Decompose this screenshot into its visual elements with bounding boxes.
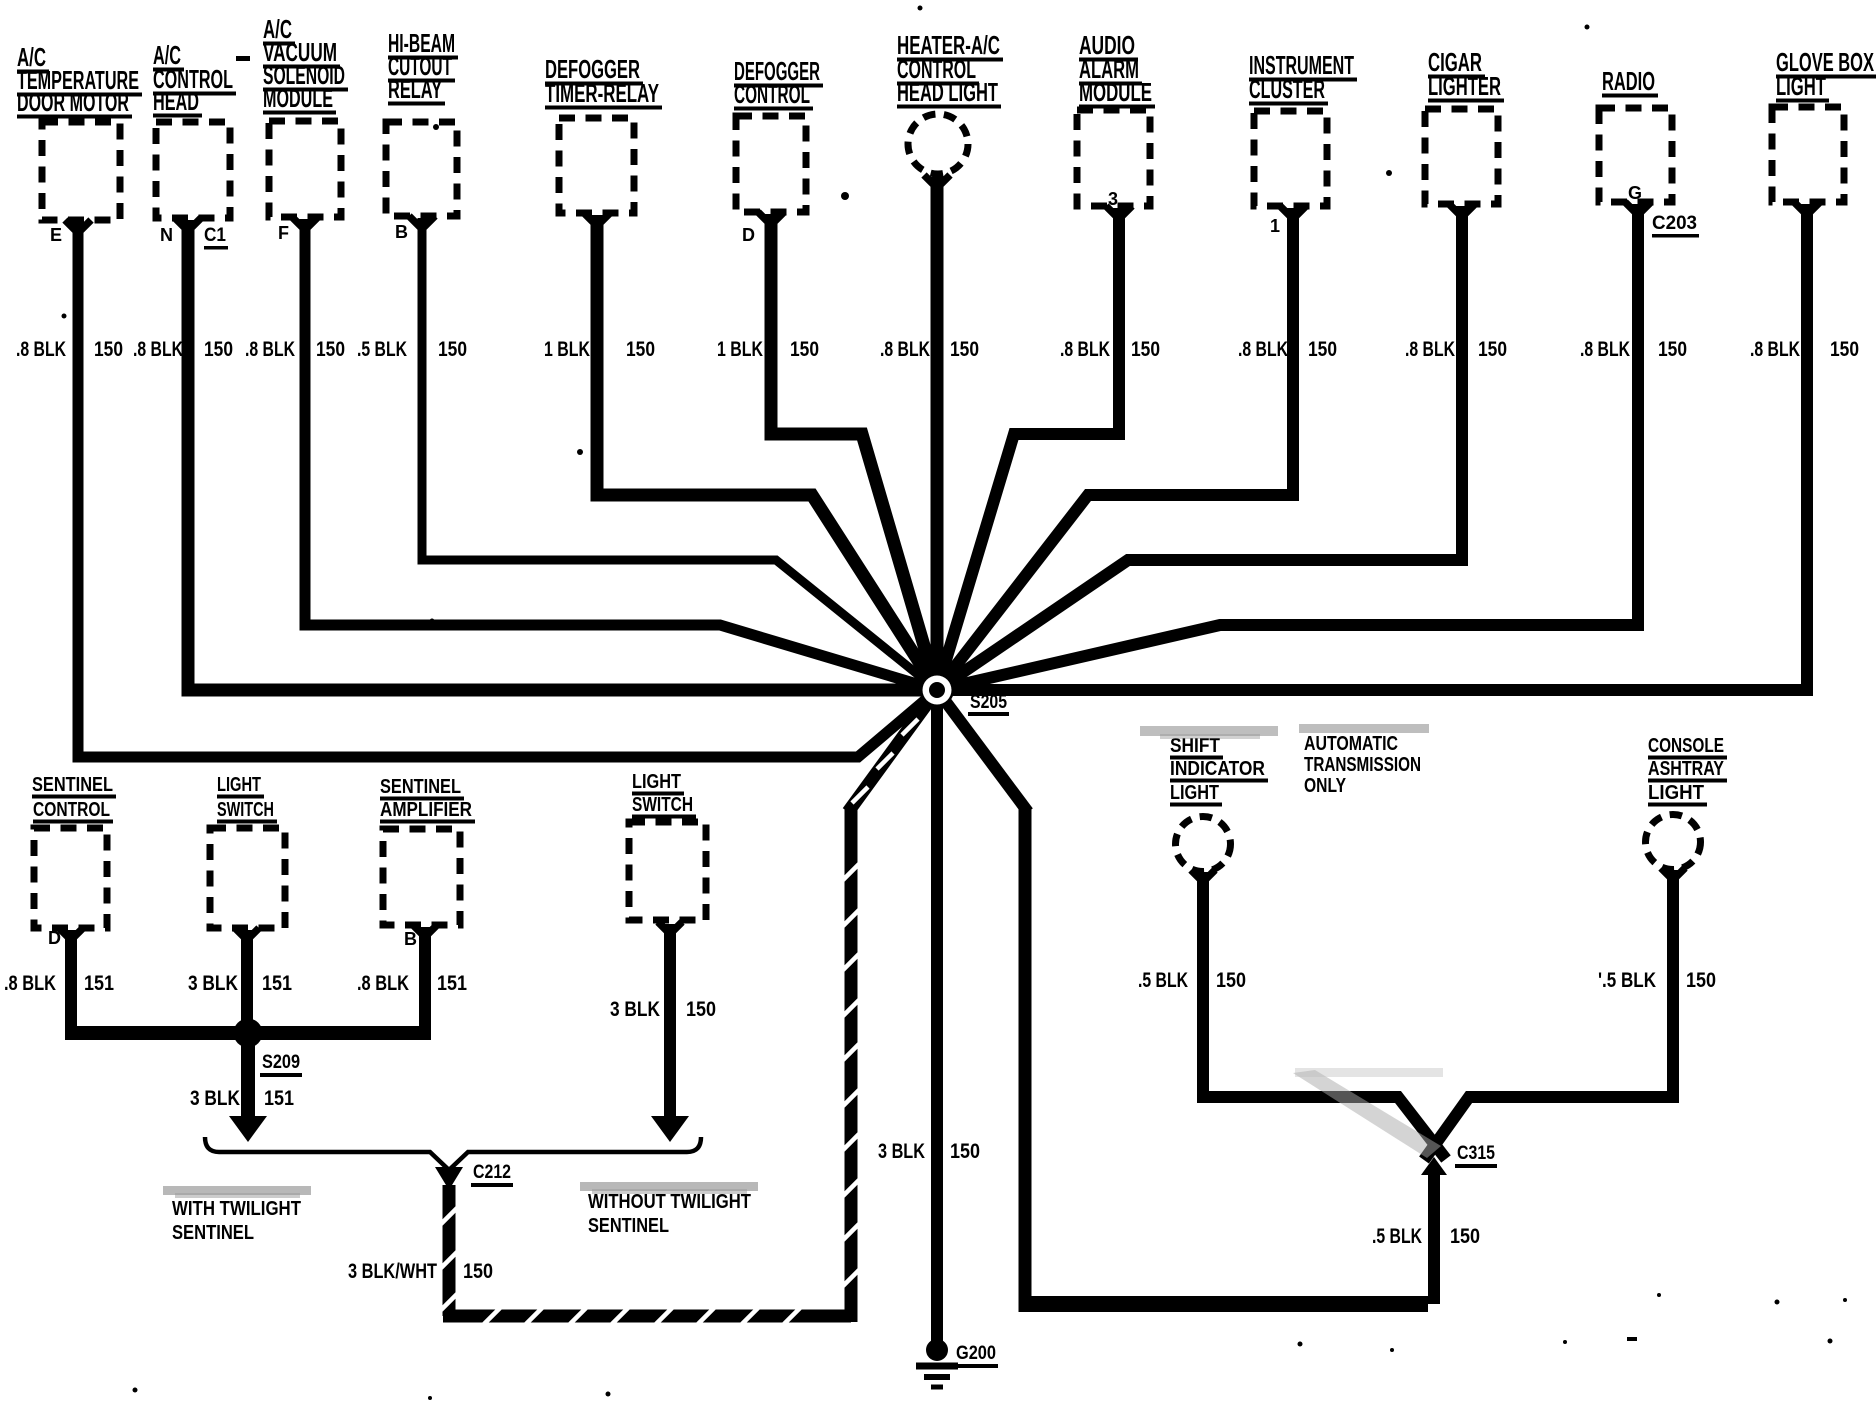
svg-text:HEAD: HEAD — [153, 86, 199, 116]
svg-text:150: 150 — [1478, 338, 1507, 361]
svg-text:LIGHT: LIGHT — [1776, 71, 1826, 101]
svg-text:1: 1 — [1270, 216, 1280, 236]
svg-text:RADIO: RADIO — [1602, 66, 1655, 96]
svg-text:SENTINEL: SENTINEL — [32, 774, 113, 796]
svg-text:LIGHT: LIGHT — [632, 771, 681, 793]
wire 3 BLK/WHT 150 from C212 to S205 (striped) — [348, 690, 937, 1324]
svg-text:SENTINEL: SENTINEL — [380, 776, 461, 798]
svg-text:SENTINEL: SENTINEL — [172, 1222, 254, 1244]
component A/C TEMPERATURE DOOR MOTOR — [17, 42, 142, 245]
svg-text:3 BLK: 3 BLK — [188, 972, 238, 995]
wire radio .8 BLK 150 — [937, 202, 1687, 690]
svg-text:'.5 BLK: '.5 BLK — [1598, 969, 1656, 992]
svg-text:.5 BLK: .5 BLK — [357, 338, 407, 361]
component AUDIO ALARM MODULE — [1077, 30, 1155, 209]
svg-text:.8 BLK: .8 BLK — [1060, 338, 1110, 361]
svg-text:MODULE: MODULE — [263, 83, 333, 113]
component SENTINEL CONTROL — [32, 774, 116, 948]
component HEATER-A/C CONTROL HEAD LIGHT — [897, 30, 1003, 174]
wire .5 BLK 150 from C315 to S205 — [937, 690, 1480, 1312]
svg-text:C315: C315 — [1457, 1143, 1495, 1164]
ground G200 — [916, 1339, 998, 1387]
svg-text:TRANSMISSION: TRANSMISSION — [1304, 754, 1421, 776]
svg-text:150: 150 — [438, 338, 467, 361]
svg-text:.8 BLK: .8 BLK — [4, 972, 56, 995]
svg-text:151: 151 — [264, 1087, 294, 1110]
component GLOVE BOX LIGHT — [1772, 47, 1876, 202]
svg-text:G: G — [1628, 183, 1642, 203]
svg-text:1 BLK: 1 BLK — [544, 338, 590, 361]
svg-text:150: 150 — [1686, 969, 1716, 992]
svg-text:151: 151 — [262, 972, 292, 995]
svg-text:.8 BLK: .8 BLK — [16, 338, 66, 361]
wire instrument cluster .8 BLK 150 — [937, 206, 1337, 690]
svg-text:TIMER-RELAY: TIMER-RELAY — [545, 78, 659, 108]
svg-text:D: D — [742, 225, 755, 245]
svg-text:ASHTRAY: ASHTRAY — [1648, 758, 1725, 780]
svg-text:.5 BLK: .5 BLK — [1138, 969, 1188, 992]
svg-text:150: 150 — [1830, 338, 1859, 361]
svg-text:HEAD LIGHT: HEAD LIGHT — [897, 77, 998, 107]
svg-text:.8 BLK: .8 BLK — [357, 972, 409, 995]
svg-text:150: 150 — [1658, 338, 1687, 361]
svg-text:150: 150 — [1131, 338, 1160, 361]
svg-text:LIGHTER: LIGHTER — [1428, 71, 1501, 101]
svg-text:CONTROL: CONTROL — [33, 799, 110, 821]
wire heater-a/c control head light .8 BLK 150 — [880, 175, 979, 690]
wire hi-beam cutout relay .5 BLK 150 — [357, 216, 937, 690]
svg-text:3 BLK: 3 BLK — [190, 1087, 240, 1110]
wire audio alarm module .8 BLK 150 — [937, 206, 1160, 690]
svg-text:MODULE: MODULE — [1079, 77, 1152, 107]
svg-text:RELAY: RELAY — [388, 74, 442, 104]
component HI-BEAM CUTOUT RELAY — [386, 28, 458, 242]
svg-text:LIGHT: LIGHT — [1648, 782, 1704, 804]
svg-text:ONLY: ONLY — [1304, 775, 1347, 797]
svg-text:INDICATOR: INDICATOR — [1170, 758, 1265, 780]
svg-text:G200: G200 — [956, 1343, 996, 1364]
svg-text:150: 150 — [463, 1260, 493, 1283]
svg-text:.5 BLK: .5 BLK — [1372, 1225, 1422, 1248]
svg-text:S205: S205 — [970, 692, 1007, 713]
junction bus at S209 — [65, 1026, 431, 1040]
note WITHOUT TWILIGHT SENTINEL — [580, 1182, 758, 1237]
svg-text:150: 150 — [1308, 338, 1337, 361]
svg-text:150: 150 — [686, 998, 716, 1021]
component LIGHT SWITCH (right) — [629, 771, 706, 920]
svg-text:.8 BLK: .8 BLK — [133, 338, 183, 361]
svg-text:SENTINEL: SENTINEL — [588, 1215, 669, 1237]
svg-text:3 BLK: 3 BLK — [610, 998, 660, 1021]
note WITH TWILIGHT SENTINEL — [163, 1186, 311, 1244]
svg-text:WITH TWILIGHT: WITH TWILIGHT — [172, 1198, 301, 1220]
component LIGHT SWITCH (left) — [210, 774, 285, 928]
wire 3 BLK 151 below S209 with arrow — [190, 1033, 294, 1142]
svg-text:WITHOUT TWILIGHT: WITHOUT TWILIGHT — [588, 1191, 751, 1213]
svg-text:C212: C212 — [473, 1162, 511, 1183]
svg-text:.8 BLK: .8 BLK — [1580, 338, 1630, 361]
svg-text:C1: C1 — [204, 225, 226, 246]
connector C212 — [435, 1162, 513, 1190]
svg-text:E: E — [50, 225, 62, 245]
svg-text:151: 151 — [437, 972, 467, 995]
svg-text:.8 BLK: .8 BLK — [880, 338, 930, 361]
smudge artifacts above shift/automatic labels — [1140, 726, 1278, 736]
wire light switch 3 BLK 151 — [188, 928, 292, 1122]
wire defogger control 1 BLK 150 — [717, 212, 937, 690]
svg-text:150: 150 — [950, 1140, 980, 1163]
component A/C CONTROL HEAD — [153, 40, 236, 250]
component CIGAR LIGHTER — [1425, 47, 1504, 204]
splice S205 — [920, 673, 1009, 716]
svg-text:3 BLK/WHT: 3 BLK/WHT — [348, 1260, 437, 1283]
svg-text:SWITCH: SWITCH — [632, 794, 693, 816]
component SENTINEL AMPLIFIER — [380, 776, 475, 949]
wire sentinel control .8 BLK 151 — [4, 928, 114, 1040]
lamp SHIFT INDICATOR LIGHT — [1170, 735, 1268, 872]
wire defogger timer-relay 1 BLK 150 — [544, 213, 937, 690]
svg-text:150: 150 — [1450, 1225, 1480, 1248]
svg-text:N: N — [160, 225, 173, 245]
splice S209 — [234, 1019, 303, 1078]
svg-text:F: F — [278, 223, 289, 243]
svg-text:150: 150 — [204, 338, 233, 361]
wire cigar lighter .8 BLK 150 — [937, 204, 1507, 690]
svg-text:B: B — [395, 222, 408, 242]
wire A/C vacuum solenoid .8 BLK 150 — [245, 217, 937, 690]
svg-text:LIGHT: LIGHT — [1170, 782, 1219, 804]
svg-text:S209: S209 — [262, 1052, 300, 1073]
component DEFOGGER TIMER-RELAY — [545, 54, 662, 213]
wire 3 BLK 150 from S205 to G200 — [878, 690, 980, 1348]
wire glove box light .8 BLK 150 — [937, 202, 1859, 690]
svg-text:151: 151 — [84, 972, 114, 995]
smudge streak near C315 — [1293, 1070, 1441, 1158]
component A/C VACUUM SOLENOID MODULE — [263, 14, 348, 243]
component RADIO — [1599, 66, 1699, 238]
svg-text:.8 BLK: .8 BLK — [245, 338, 295, 361]
wire shift indicator light .5 BLK 150 — [1138, 870, 1446, 1159]
svg-text:1 BLK: 1 BLK — [717, 338, 763, 361]
wire A/C temperature door motor .8 BLK 150 — [16, 220, 937, 757]
wire sentinel amplifier .8 BLK 151 — [357, 925, 467, 1040]
svg-text:C203: C203 — [1652, 213, 1697, 234]
note AUTOMATIC TRANSMISSION ONLY — [1304, 733, 1421, 797]
svg-text:.8 BLK: .8 BLK — [1750, 338, 1800, 361]
connector C315 — [1421, 1143, 1497, 1175]
svg-text:.8 BLK: .8 BLK — [1405, 338, 1455, 361]
svg-text:150: 150 — [1216, 969, 1246, 992]
svg-text:3 BLK: 3 BLK — [878, 1140, 925, 1163]
svg-text:SWITCH: SWITCH — [217, 799, 274, 821]
wire A/C control head .8 BLK 150 — [133, 218, 937, 690]
svg-text:.8 BLK: .8 BLK — [1238, 338, 1288, 361]
svg-text:CLUSTER: CLUSTER — [1249, 74, 1325, 104]
wire light switch 3 BLK 150 with arrow — [610, 922, 716, 1142]
brace joining arrows to C212 — [205, 1137, 701, 1170]
svg-text:150: 150 — [94, 338, 123, 361]
svg-text:LIGHT: LIGHT — [217, 774, 261, 796]
component DEFOGGER CONTROL — [734, 56, 823, 245]
lamp CONSOLE ASHTRAY LIGHT — [1646, 735, 1728, 870]
svg-text:DOOR MOTOR: DOOR MOTOR — [17, 87, 129, 117]
svg-text:150: 150 — [626, 338, 655, 361]
svg-text:AMPLIFIER: AMPLIFIER — [380, 799, 472, 821]
svg-text:CONTROL: CONTROL — [734, 79, 810, 109]
svg-text:CONSOLE: CONSOLE — [1648, 735, 1724, 757]
svg-text:150: 150 — [950, 338, 979, 361]
svg-text:150: 150 — [316, 338, 345, 361]
svg-text:150: 150 — [790, 338, 819, 361]
wire console ashtray light .5 BLK 150 — [1424, 868, 1716, 1160]
component INSTRUMENT CLUSTER — [1249, 50, 1357, 236]
svg-text:AUTOMATIC: AUTOMATIC — [1304, 733, 1398, 755]
